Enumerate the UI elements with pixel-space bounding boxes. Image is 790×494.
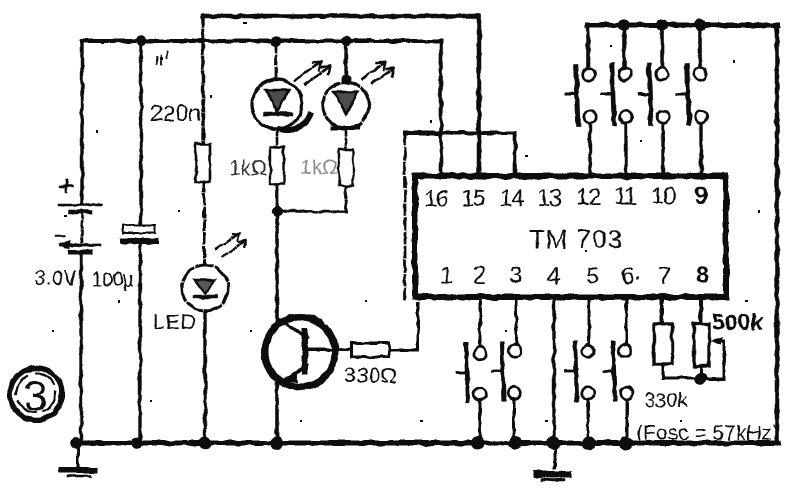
svg-text:TM 703: TM 703 [529,224,623,254]
svg-text:(Fosc = 57kHz): (Fosc = 57kHz) [636,422,779,445]
svg-text:6·: 6· [621,263,642,290]
svg-text:1: 1 [440,262,453,289]
svg-text:330Ω: 330Ω [344,363,397,388]
svg-text:220n: 220n [150,100,201,126]
svg-text:3.0V: 3.0V [34,267,77,290]
svg-text:4: 4 [547,263,560,290]
svg-text:1kΩ: 1kΩ [300,156,338,179]
svg-text:10: 10 [651,183,676,210]
svg-text:11: 11 [614,183,637,210]
svg-text:1kΩ: 1kΩ [229,157,267,180]
svg-text:15: 15 [461,185,486,212]
svg-text:2: 2 [473,262,486,289]
svg-text:330k: 330k [644,390,688,412]
svg-text:13: 13 [537,185,562,212]
svg-text:7: 7 [658,263,671,290]
svg-text:LED: LED [153,311,197,334]
svg-text:3: 3 [509,262,522,289]
svg-text:16: 16 [424,186,449,213]
svg-text:14: 14 [499,185,524,212]
svg-text:9: 9 [694,182,708,210]
svg-text:12: 12 [576,184,601,211]
svg-text:3: 3 [24,372,47,419]
svg-text:100µ: 100µ [92,269,134,291]
svg-text:500k: 500k [712,309,763,335]
svg-text:5: 5 [586,263,599,290]
svg-text:8: 8 [696,262,709,289]
